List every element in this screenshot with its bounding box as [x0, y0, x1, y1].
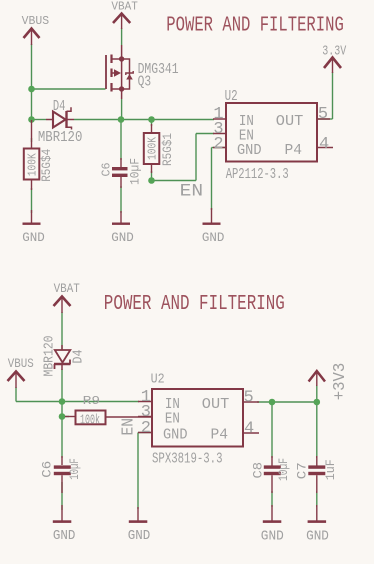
svg-text:GND: GND — [111, 230, 134, 245]
svg-text:+3V3: +3V3 — [331, 363, 350, 401]
svg-text:VBAT: VBAT — [54, 281, 80, 296]
svg-text:5: 5 — [244, 388, 254, 407]
svg-text:100K: 100K — [26, 153, 39, 176]
svg-text:3.3V: 3.3V — [322, 44, 347, 59]
svg-text:100k: 100k — [80, 412, 100, 428]
svg-text:GND: GND — [53, 529, 76, 544]
svg-text:GND: GND — [163, 427, 188, 443]
svg-text:100K: 100K — [146, 137, 159, 160]
svg-text:Q3: Q3 — [138, 75, 152, 91]
svg-text:POWER AND FILTERING: POWER AND FILTERING — [104, 292, 285, 316]
svg-text:5: 5 — [318, 105, 328, 124]
svg-text:P4: P4 — [285, 143, 303, 159]
svg-text:GND: GND — [261, 529, 284, 544]
svg-text:OUT: OUT — [276, 114, 304, 130]
svg-text:U2: U2 — [151, 372, 165, 388]
svg-text:VBUS: VBUS — [8, 356, 34, 371]
svg-text:4: 4 — [244, 419, 254, 438]
svg-text:U2: U2 — [225, 88, 238, 105]
svg-text:10µF: 10µF — [277, 458, 291, 481]
svg-text:GND: GND — [22, 230, 45, 245]
svg-text:IN: IN — [239, 114, 254, 130]
svg-text:OUT: OUT — [202, 397, 230, 413]
svg-text:P4: P4 — [211, 427, 229, 443]
svg-text:GND: GND — [306, 529, 329, 544]
svg-text:GND: GND — [237, 143, 262, 159]
svg-text:D4: D4 — [71, 350, 87, 364]
svg-text:C8: C8 — [251, 462, 265, 479]
svg-text:10µF: 10µF — [129, 158, 143, 185]
svg-text:POWER AND FILTERING: POWER AND FILTERING — [166, 13, 343, 37]
svg-text:GND: GND — [128, 529, 151, 544]
svg-text:R5G$1: R5G$1 — [160, 133, 175, 166]
svg-text:2: 2 — [141, 419, 151, 438]
svg-text:D4: D4 — [53, 99, 66, 115]
svg-text:SPX3819-3.3: SPX3819-3.3 — [152, 451, 223, 468]
svg-text:1uF: 1uF — [324, 459, 338, 480]
svg-text:EN: EN — [165, 411, 180, 427]
svg-text:10µF: 10µF — [68, 458, 82, 480]
svg-text:EN: EN — [180, 182, 204, 202]
svg-text:R5G$4: R5G$4 — [39, 149, 54, 182]
svg-text:R9: R9 — [83, 394, 101, 408]
svg-text:VBUS: VBUS — [22, 14, 49, 28]
svg-text:C7: C7 — [296, 462, 310, 479]
svg-text:C6: C6 — [40, 461, 54, 478]
svg-text:EN: EN — [119, 418, 138, 436]
svg-text:4: 4 — [319, 135, 329, 154]
svg-text:2: 2 — [213, 135, 223, 154]
svg-text:MBR120: MBR120 — [38, 129, 83, 146]
svg-text:AP2112-3.3: AP2112-3.3 — [226, 166, 289, 183]
svg-text:C6: C6 — [100, 163, 114, 177]
svg-text:VBAT: VBAT — [111, 0, 137, 14]
svg-text:MBR120: MBR120 — [42, 336, 58, 377]
svg-text:GND: GND — [202, 230, 225, 245]
